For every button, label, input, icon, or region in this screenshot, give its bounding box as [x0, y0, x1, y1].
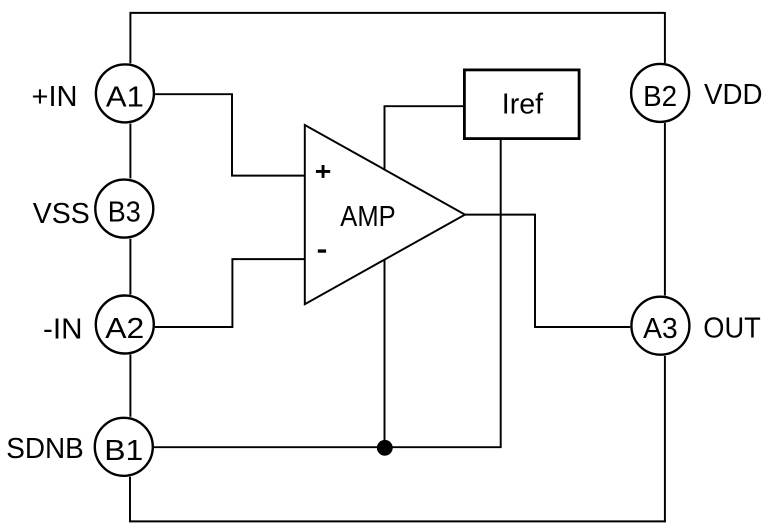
- Iref block: [464, 70, 579, 139]
- wire bottom border: [130, 520, 666, 522]
- svg-text:VDD: VDD: [704, 79, 763, 111]
- svg-text:A1: A1: [106, 81, 144, 113]
- wire -IN from A2 to AMP inverting input: [155, 259, 305, 327]
- plus sign noninverting input: [316, 165, 330, 178]
- wire +IN from A1 to AMP noninverting input: [155, 94, 305, 175]
- svg-text:VSS: VSS: [33, 198, 90, 230]
- svg-text:A3: A3: [643, 313, 678, 345]
- svg-text:OUT: OUT: [703, 313, 761, 345]
- wire left border A2-B1 segment: [129, 355, 131, 417]
- wire AMP top to Iref left: [385, 106, 464, 169]
- wire right border B2-A3 segment: [664, 123, 666, 296]
- svg-text:A2: A2: [105, 313, 144, 345]
- wire left border B3-A2 segment: [129, 239, 131, 295]
- wire left border bottom segment: [129, 477, 131, 523]
- wire top border: [130, 12, 665, 14]
- svg-text:B3: B3: [108, 197, 141, 229]
- pin A2: [96, 296, 154, 354]
- op-amp AMP triangle: [305, 125, 465, 304]
- svg-text:B1: B1: [104, 435, 143, 467]
- wire left border A1-B3 segment: [129, 124, 131, 179]
- pin B3: [95, 180, 153, 238]
- svg-text:+IN: +IN: [32, 81, 78, 113]
- pin A3: [631, 297, 689, 355]
- svg-text:SDNB: SDNB: [6, 433, 84, 465]
- pin B2: [631, 64, 689, 122]
- wire right border bottom segment: [664, 356, 666, 522]
- wire right border top segment: [664, 12, 666, 63]
- junction dot on SDNB net: [377, 440, 393, 456]
- pin B1: [95, 418, 153, 476]
- svg-text:-IN: -IN: [43, 314, 83, 346]
- wire AMP output to A3: [465, 215, 630, 327]
- wire SDNB from B1 to Iref bottom: [154, 446, 502, 448]
- svg-text:B2: B2: [643, 81, 677, 113]
- wire Iref bottom to SDNB net: [500, 140, 502, 447]
- wire left border top segment: [129, 12, 131, 63]
- svg-text:AMP: AMP: [340, 201, 395, 233]
- svg-text:Iref: Iref: [502, 89, 544, 121]
- pin A1: [96, 64, 154, 122]
- wire AMP bottom to SDNB net: [384, 260, 386, 447]
- minus sign inverting input: [318, 249, 326, 252]
